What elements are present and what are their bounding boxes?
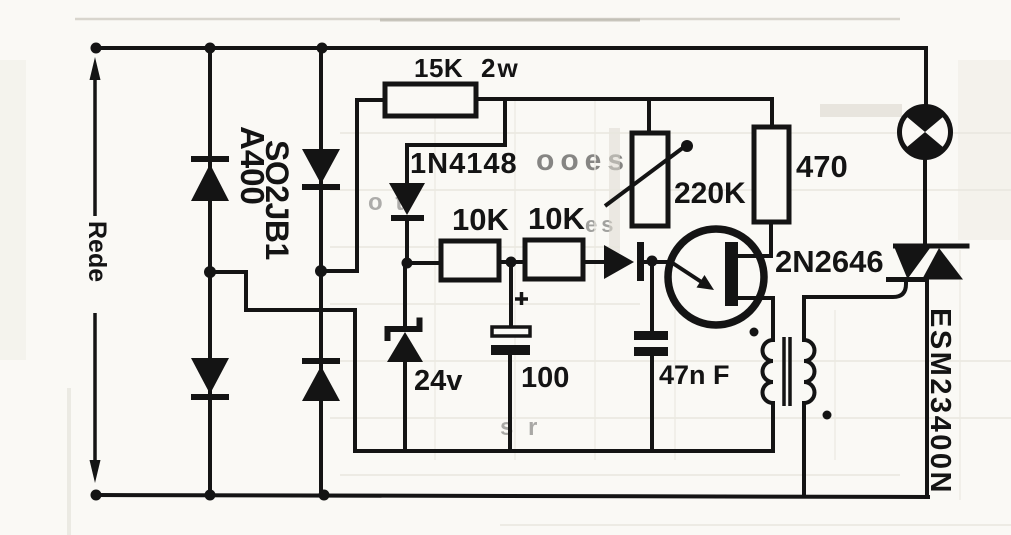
diode D1 bridge xyxy=(191,156,229,201)
wire transformer secondary bottom xyxy=(802,403,806,496)
junction dot node A xyxy=(402,258,413,269)
zener 24v xyxy=(387,318,423,363)
svg-text:470: 470 xyxy=(796,149,848,184)
wire R2 to R3 xyxy=(500,260,523,264)
svg-text:15K: 15K xyxy=(414,53,463,83)
svg-text:Rede: Rede xyxy=(83,221,111,282)
junction dot between 10K xyxy=(506,257,517,268)
lamp xyxy=(900,105,951,159)
wire 15K output xyxy=(477,97,772,101)
wire cap47 branch xyxy=(650,262,654,451)
svg-text:47n F: 47n F xyxy=(659,360,730,390)
svg-text:10K: 10K xyxy=(528,201,585,236)
transformer dot secondary xyxy=(823,411,832,420)
wire D5 to emitter xyxy=(644,260,670,264)
triac ESM23400N xyxy=(886,244,970,280)
transistor 2N2646 xyxy=(668,229,764,325)
diode D2 bridge xyxy=(191,358,229,400)
capacitor 100 xyxy=(491,292,530,355)
wire 220K top lead xyxy=(647,99,651,133)
svg-text:1N4148: 1N4148 xyxy=(410,148,518,180)
capacitor 47nF xyxy=(634,331,668,356)
faint grid verticals xyxy=(435,100,960,500)
wire transformer secondary top to gate xyxy=(804,280,906,340)
diode D3 bridge xyxy=(302,149,340,190)
wire lamp drop xyxy=(924,48,928,108)
wire 470 to B2 xyxy=(737,222,771,256)
wire bottom rail xyxy=(96,495,928,497)
svg-text:10K: 10K xyxy=(452,202,509,237)
wire 470 top lead xyxy=(770,99,774,127)
diode D4 bridge xyxy=(302,358,340,401)
resistor 15K 2w xyxy=(385,84,476,116)
junction dot bridge right xyxy=(315,265,327,277)
wire B1 to transformer xyxy=(738,298,773,340)
junction dots bottom rail xyxy=(91,490,102,501)
wire zener branch xyxy=(403,263,407,451)
diode 1N4148 xyxy=(389,183,425,221)
wire triac to bottom xyxy=(925,281,929,497)
wire cap100 branch xyxy=(510,262,511,451)
svg-text:2w: 2w xyxy=(481,53,520,83)
wire DC plus riser xyxy=(321,100,384,271)
wire lamp to triac xyxy=(923,158,927,244)
svg-text:2N2646: 2N2646 xyxy=(775,244,884,279)
resistor 470 xyxy=(754,127,789,222)
junction dot emitter node xyxy=(647,256,658,267)
wire 1N4148 to node A xyxy=(405,221,409,263)
wire DC minus step xyxy=(210,272,773,451)
transformer dot primary xyxy=(750,328,759,337)
diode D5 xyxy=(604,242,644,281)
resistor 10K a xyxy=(441,241,499,280)
svg-text:SO2JB1: SO2JB1 xyxy=(259,140,295,260)
wire transformer primary bottom xyxy=(771,403,775,451)
svg-text:ESM23400N: ESM23400N xyxy=(924,308,956,495)
transformer primary xyxy=(763,340,774,403)
resistor 10K b xyxy=(525,240,583,279)
mains arrow down xyxy=(93,313,97,468)
faint grid horizontals xyxy=(330,133,1011,525)
mains arrow up xyxy=(93,70,97,216)
wire bridge column 1 xyxy=(208,48,212,495)
junction dot bridge left xyxy=(204,266,216,278)
wire bridge column 2 xyxy=(319,48,323,495)
scan streak top xyxy=(75,18,900,21)
wire node A to R2 xyxy=(407,261,439,265)
transformer secondary xyxy=(804,340,815,403)
svg-text:24v: 24v xyxy=(414,365,462,397)
svg-text:220K: 220K xyxy=(674,177,746,210)
wire drop to 1N4148 xyxy=(407,99,505,183)
transformer core xyxy=(784,337,790,406)
potentiometer 220K xyxy=(605,133,693,226)
wire top rail xyxy=(95,46,926,50)
scan mottling xyxy=(609,128,620,253)
svg-text:100: 100 xyxy=(521,362,569,394)
junction dots top rail xyxy=(91,43,102,54)
wire R3 to D5 xyxy=(584,260,604,264)
